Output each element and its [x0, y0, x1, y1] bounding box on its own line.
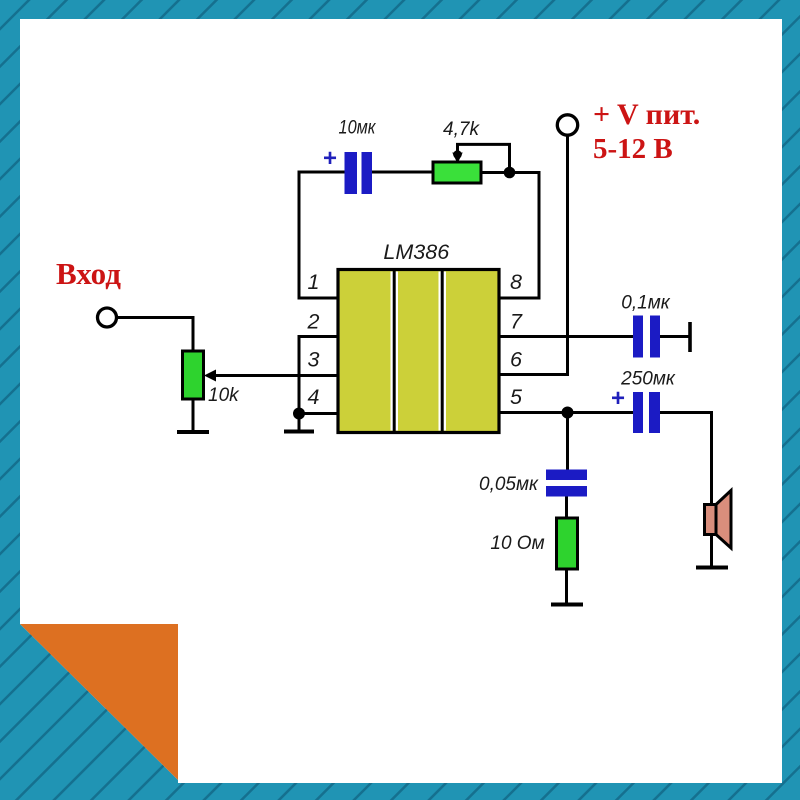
svg-text:1: 1: [308, 270, 320, 294]
ground (speaker): [696, 566, 728, 570]
svg-text:250мк: 250мк: [620, 369, 676, 390]
wire C2 to end bar: [660, 335, 689, 338]
svg-text:7: 7: [510, 310, 523, 334]
svg-text:5-12 В: 5-12 В: [593, 133, 673, 165]
ground (R1): [177, 430, 209, 434]
IC U1 LM386 body: [338, 270, 499, 433]
capacitor C3 250мк: [633, 392, 660, 433]
svg-text:0,05мк: 0,05мк: [479, 474, 539, 495]
svg-text:0,1мк: 0,1мк: [621, 293, 670, 314]
svg-text:10мк: 10мк: [339, 118, 377, 139]
wire input to potentiometer R1: [117, 318, 194, 352]
wire pin 2: [299, 335, 338, 338]
wire C3 to speaker: [660, 413, 712, 506]
wire pin 4: [299, 412, 338, 415]
power label: [593, 98, 700, 165]
R1 wiper arrow and wire to pin 3: [204, 370, 338, 382]
wire pin 1 riser to C1: [299, 172, 345, 298]
wire C1 to R2: [372, 171, 433, 174]
capacitor C4 0,05мк: [546, 470, 587, 497]
wire R1 bottom to ground: [192, 399, 195, 430]
wire speaker to ground: [710, 535, 713, 567]
svg-text:4,7k: 4,7k: [443, 119, 480, 140]
junction pin 4: [293, 408, 305, 420]
terminal bar (C2 ground): [688, 322, 692, 352]
capacitor C2 0,1мк: [633, 316, 660, 358]
svg-text:+ V пит.: + V пит.: [593, 98, 700, 131]
svg-text:LM386: LM386: [383, 240, 449, 264]
svg-text:3: 3: [308, 348, 320, 372]
wire R2 to pin 8: [481, 173, 539, 299]
svg-text:Вход: Вход: [56, 256, 121, 291]
ground (R3): [551, 603, 583, 607]
resistor R3 10 Ом: [557, 518, 578, 569]
svg-text:5: 5: [510, 385, 523, 409]
ground (pin 4): [284, 430, 314, 434]
svg-text:8: 8: [510, 270, 522, 294]
svg-text:6: 6: [510, 348, 522, 372]
R2 wiper arm: [452, 144, 509, 168]
potentiometer R2 body (4,7k): [433, 162, 481, 183]
svg-text:10k: 10k: [208, 385, 240, 406]
wire R3 to ground: [565, 569, 568, 603]
wire power to pin 6: [499, 136, 568, 375]
wire pin 7 to C2: [499, 335, 633, 338]
wire pin 5: [499, 411, 633, 414]
speaker LS1: [705, 491, 732, 549]
potentiometer R1 body (10k): [183, 351, 204, 399]
input terminal: [98, 308, 117, 327]
svg-text:4: 4: [308, 385, 320, 409]
junction pin 5: [562, 407, 574, 419]
svg-text:2: 2: [307, 310, 320, 334]
wire C4 to R3: [565, 497, 568, 519]
orange corner triangle: [20, 624, 178, 780]
capacitor C1 10мк: [345, 152, 373, 194]
svg-text:+: +: [323, 145, 337, 172]
svg-text:10 Ом: 10 Ом: [490, 533, 544, 554]
junction A (R2 / pin 8): [504, 167, 516, 179]
power terminal: [557, 115, 577, 135]
ground bus vertical (pins 2,4): [298, 335, 301, 430]
wire junction to C4: [566, 413, 569, 471]
